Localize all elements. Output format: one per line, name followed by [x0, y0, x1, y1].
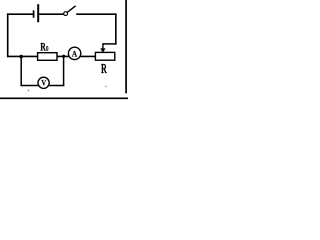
svg-text:V: V: [41, 78, 46, 88]
svg-text:0: 0: [46, 45, 48, 53]
svg-text:R: R: [101, 62, 108, 77]
svg-text:A: A: [72, 49, 78, 59]
